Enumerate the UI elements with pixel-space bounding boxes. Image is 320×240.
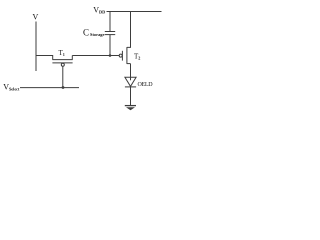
ground [125, 106, 136, 111]
svg-text:CStorage: CStorage [83, 28, 104, 38]
power rail VDD [107, 11, 162, 13]
wire diode to ground [130, 87, 132, 105]
svg-text:T2: T2 [134, 53, 140, 61]
svg-text:T1: T1 [59, 49, 65, 57]
svg-text:VSelect: VSelect [3, 82, 20, 91]
diode OELD cathode bar [125, 86, 136, 88]
wire T2 source to diode [130, 64, 132, 81]
svg-text:OELD: OELD [138, 82, 154, 88]
svg-text:VDD: VDD [93, 5, 105, 14]
wire storage node (T1 source to T2 gate) [72, 55, 119, 57]
capacitor C_Storage [105, 12, 115, 56]
wire T1 drain from data line [36, 56, 53, 60]
junction node / capacitor bottom [109, 54, 112, 57]
wire data line vertical [35, 22, 37, 72]
svg-text:V: V [33, 13, 39, 22]
wire T1 gate lead [62, 66, 64, 87]
transistor T2 [119, 12, 130, 64]
junction select line / T1 gate [62, 86, 65, 89]
diode OELD (anode triangle) [125, 77, 136, 86]
transistor T1 [52, 56, 72, 67]
wire select line [20, 87, 79, 89]
